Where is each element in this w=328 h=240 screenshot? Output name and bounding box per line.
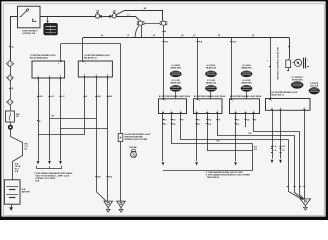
headlight 1 stub [175,92,177,99]
svg-text:1: 1 [38,75,39,77]
svg-text:RUNNING LIGHT SYSTEM): RUNNING LIGHT SYSTEM) [124,139,147,141]
bus tick 2D@217.7 [217,35,221,37]
headlight 3 high label [241,65,251,70]
svg-text:1: 1 [245,111,246,113]
retract relay A top pin [163,100,166,103]
wire switch to left rail [11,17,18,61]
svg-text:CONTROL SW: CONTROL SW [22,33,35,35]
headlight feed drop 1 [163,38,165,99]
rail feed drop [252,144,254,171]
retract relay B top pin [197,100,200,103]
battery [4,180,20,204]
headlight 1 high connector [170,71,181,77]
relayC wire2 stub [245,114,247,128]
circuit breaker box [6,111,15,122]
relayB wire1 to rail [196,114,198,162]
svg-text:B-W: B-W [217,141,221,143]
relayA wire2 route [172,114,253,144]
relay3 wire2 arrow [279,160,282,163]
svg-text:RELAY (NO. 3): RELAY (NO. 3) [272,93,285,96]
svg-text:R-W: R-W [199,42,203,44]
relay2 pins bottom [84,73,109,76]
connector diamond 3 [7,99,14,105]
route drop ticks [287,186,305,188]
svg-text:R-W: R-W [233,42,237,44]
headlight 1 low label [171,80,181,85]
relayC wire2 labels [245,120,251,122]
wire label 2I [162,31,166,33]
headlight 3 low label [241,80,251,85]
relay1 pins bottom [37,75,62,77]
svg-text:BEAM (RH): BEAM (RH) [241,82,251,85]
svg-text:2: 2 [253,111,254,113]
svg-text:2: 2 [180,111,181,113]
relay2 wire 2 label [95,96,101,179]
branch relay1-2 mid [61,128,108,130]
relay1 pin3 riser [60,44,62,61]
svg-text:SEE PAGE 96: SEE PAGE 96 [206,176,220,179]
relayA wire3 route [181,114,289,140]
svg-text:E: E [304,108,305,110]
wire relay left drop [141,26,143,38]
branch relay1-2 upper [50,118,97,120]
svg-text:2E: 2E [101,35,103,37]
bus tick 2B@181.0 [180,35,184,37]
fuse 15A [95,13,99,19]
wire relay right drop [163,26,165,38]
relay3 wire2 [280,110,282,158]
relay1 pin3 mark [58,62,62,66]
retract motor [292,59,302,66]
svg-text:B-4: B-4 [24,148,27,151]
relayB wire1 arrow [195,162,198,165]
bus tick 2E@251.8 [251,35,254,37]
note text left [34,172,73,183]
resistor tail wire [120,142,122,202]
ground route 1 drop [289,140,303,200]
relay3 wire2 labels [280,146,286,152]
svg-text:1: 1 [171,111,172,113]
svg-text:BEAM (LH): BEAM (LH) [206,67,216,70]
relay2 wire 1 label [84,96,88,98]
relay3 box [266,99,311,111]
relayA wire1 to rail [162,114,164,162]
switch arm [20,8,30,16]
route label B-W upper [254,146,258,151]
svg-text:L-W: L-W [51,96,55,98]
svg-text:4: 4 [84,73,85,76]
svg-text:MOTOR (RH): MOTOR (RH) [292,79,303,81]
retract connector label 1 [291,76,304,81]
connector diamond 1 [7,61,14,67]
relayC wire1 to rail [235,114,237,162]
ground bolt icon [130,149,136,158]
relay3 wire1 arrow [271,160,274,163]
wire between relays [144,23,160,25]
svg-text:3: 3 [163,111,164,113]
wire switch to fuses [40,16,95,18]
collector rail [163,170,253,172]
svg-text:B 8 DAYTIME RUNNING LIGHT RELA: B 8 DAYTIME RUNNING LIGHT RELAY [159,95,191,98]
svg-text:B 8 DAYTIME RUNNING LIGHT RELA: B 8 DAYTIME RUNNING LIGHT RELAY [230,95,262,98]
relay2 pin sublabels [84,78,108,81]
svg-text:R-Y: R-Y [237,120,240,122]
svg-text:RELAY (NO. 2): RELAY (NO. 2) [84,56,97,59]
relayB wire3 labels [216,120,220,122]
relay2 box [78,61,112,77]
relayB wire3 route [218,114,295,136]
svg-text:B-W: B-W [254,146,258,148]
svg-text:BEAM (RH): BEAM (RH) [241,67,251,70]
headlight 2 high connector [205,71,216,77]
svg-text:R-W: R-W [254,149,258,151]
svg-text:3: 3 [235,111,236,113]
relay2 wire 2 [96,77,98,192]
headlight feed drop 3 [231,38,233,99]
light retract switch box [18,6,41,28]
headlight 1 high label [171,64,181,70]
relay3 bottom pins [271,107,305,110]
svg-text:7: 7 [165,101,166,103]
svg-text:1: 1 [271,100,272,102]
retract resistor [286,59,291,71]
branch relay1-2 low [38,134,85,136]
retract relay C box [230,99,260,114]
route label B-W lower [217,133,253,143]
ground center 2 [117,201,126,212]
svg-text:R-W: R-W [165,42,169,44]
diamond junction a [100,15,103,18]
arrow group brace [37,166,62,169]
relayA wire1 arrow [162,162,165,165]
feed drop 1 label [162,42,168,44]
svg-text:BATTERY: BATTERY [22,190,31,193]
relay1 wire 2 labels [49,96,55,98]
svg-text:2: 2 [49,75,50,77]
svg-text:W-B: W-B [34,181,40,183]
svg-text:MOT (LH): MOT (LH) [310,85,318,87]
battery label [22,189,31,194]
headlight 2 stub [210,92,212,99]
jog label left [15,164,21,174]
relay1 wire 1 labels [37,96,43,123]
retract relay C bottom pins [235,111,255,113]
retract relay A box [159,99,187,114]
bus tick 2C@193.0 [192,35,196,37]
relay1 wire 1 [38,78,40,161]
relay3 wire1 labels [271,146,277,152]
relay3 wire1 [272,110,274,158]
svg-text:2: 2 [96,74,97,76]
svg-text:5: 5 [280,108,281,110]
relay2 wire 2 diag to ground [96,192,106,202]
fusible link connector [44,23,58,35]
svg-text:3: 3 [58,63,59,65]
relayA wire1 labels [162,120,167,126]
relay2 wire 3 [107,77,109,201]
svg-text:BEAM (RH): BEAM (RH) [171,67,181,70]
bus end drop retract [289,38,291,59]
feed drop 2 label [197,42,203,44]
svg-text:BEAM (RH): BEAM (RH) [171,82,181,85]
svg-text:1: 1 [207,111,208,113]
svg-text:1: 1 [267,61,268,63]
svg-text:L 2: L 2 [127,14,129,16]
svg-text:R-Y: R-Y [164,120,167,122]
headlight feed drop 2 [197,38,199,99]
relay3 feed label [267,61,271,67]
connector tick 2B [142,8,147,11]
relayA wire2 labels [171,120,177,126]
relayB wire1 labels [196,120,201,126]
relay3 top pin [269,100,272,103]
svg-text:2: 2 [217,111,218,113]
svg-text:3: 3 [196,111,197,113]
bus tick 2A@152.5 [152,34,156,37]
headlight 1 low connector [170,85,181,91]
switch terminal L [33,19,37,22]
left rail label 2J [9,47,13,50]
left rail label W [9,88,13,90]
svg-text:BEAM (LH): BEAM (LH) [206,82,216,85]
circuit breaker label [16,113,20,118]
relay2 wire 3 label [107,96,113,179]
relay2 pin top [82,62,86,66]
fusible link stub [47,16,49,23]
svg-text:2J: 2J [127,35,129,37]
svg-text:RETRACT CONTROL RELAY SW: RETRACT CONTROL RELAY SW [277,47,280,79]
relayC wire3 route [254,114,300,132]
feed drop 3 label [230,42,236,44]
ground center 1 [104,201,113,212]
svg-text:W: W [12,88,14,90]
bus main feed [83,37,289,39]
retract connector 1 [291,82,303,89]
retract relay A bottom pins [162,111,182,113]
svg-text:7: 7 [233,101,234,103]
svg-text:RELAY (MAIN) [DRL]: RELAY (MAIN) [DRL] [30,56,48,59]
relay1 wire 3 labels [60,96,66,98]
retract connector label 2 [310,83,319,87]
retract relay C top pin [230,100,233,103]
relay1 wire 2 [49,78,51,161]
svg-text:2J: 2J [12,47,14,49]
wire fuse2 up to top run [117,11,163,21]
wire fuse2 level branch [117,17,140,21]
headlight 3 stub [246,92,248,99]
battery ground [9,204,13,211]
bus tick 2E@100.8 [100,35,103,37]
relayB wire2 route [208,114,253,151]
svg-text:R-Y: R-Y [198,120,201,122]
left rail mid [10,105,12,111]
resistor DRL text [124,133,151,141]
relayC wire1 arrow [234,162,237,165]
wire fuse1 to fuse2 [103,16,112,18]
headlight 2 high label [206,65,216,70]
ground route 2 drop [295,136,304,200]
relayC wire1 labels [235,120,240,126]
headlight 3 low connector [241,85,252,91]
motor brushes [304,58,310,69]
svg-text:2E: 2E [252,35,254,37]
retract relay B bottom pins [196,111,219,113]
svg-text:R-Y: R-Y [237,124,240,126]
note text center [206,171,251,179]
wire relay left to bus curve [135,26,139,38]
ring connector [8,125,13,130]
left rail upper [10,61,12,99]
relay2 wire 1 [84,77,86,135]
connector diamond 2 [7,75,14,81]
resistor DRL symbol [118,133,123,141]
diamond junction b [109,15,112,18]
relayA wire3 labels [180,120,184,122]
bus drop to relay2 [82,38,84,62]
relay1 wire 3 [60,78,62,161]
retract relay left [137,20,144,25]
bus tick 2J@127.0 [126,35,129,37]
left rail low [10,122,12,125]
svg-text:B 8 DAYTIME RUNNING LIGHT RELA: B 8 DAYTIME RUNNING LIGHT RELAY [194,95,226,98]
ground right [300,199,310,210]
battery feed jog [11,130,23,180]
headlight 2 low connector [205,85,216,91]
svg-text:R-W: R-W [248,133,252,135]
ground route 3 drop [300,132,305,200]
headlight 3 high connector [241,71,252,77]
svg-text:R-Y: R-Y [198,124,201,126]
bus end tick [288,46,290,48]
fuse 30A [112,12,116,18]
relay1 wire arrows [37,161,40,164]
relayB wire2 labels [206,120,212,126]
jog label right [24,144,28,151]
svg-text:7: 7 [199,101,200,103]
relay3 feed drop [270,38,272,99]
relay1 pin sublabels [38,80,61,82]
relay top link run [61,43,121,45]
retract relay B box [194,99,223,114]
headlight 2 low label [206,80,216,85]
retract relay right [160,20,167,25]
relay3 wire3 to ground [304,111,306,199]
retract connector 2 [309,88,320,95]
svg-text:1: 1 [85,63,86,65]
relay1 box [32,61,65,78]
resistor feed drop [120,44,122,134]
svg-text:R-Y: R-Y [164,124,167,126]
relayC wire3 labels [253,120,257,122]
